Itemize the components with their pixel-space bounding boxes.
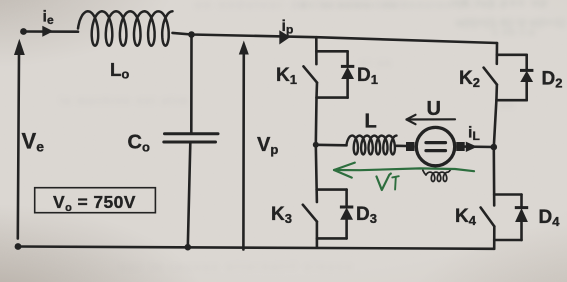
- diode D3 branch upper lead: [345, 190, 348, 207]
- node dot left leg mid (load tap): [313, 142, 319, 148]
- diode D3 cathode bar: [340, 206, 353, 209]
- wire Vp arrow shaft: [242, 47, 245, 250]
- inductor L coil: [347, 136, 397, 155]
- Vo box: [35, 188, 156, 213]
- motor M circle: [416, 127, 454, 165]
- arrowhead ip (right): [279, 30, 290, 44]
- arrowhead iL (right): [466, 142, 478, 152]
- diode D4 cathode bar: [515, 206, 528, 209]
- diode D2 cathode bar: [520, 69, 533, 72]
- wire K4 block bottom horizontal: [494, 239, 521, 242]
- diode D1 branch upper lead: [346, 51, 349, 66]
- diode D2 branch lower lead: [525, 82, 528, 101]
- diode D1 branch lower lead: [346, 79, 349, 98]
- inductor Lo coil: [78, 11, 173, 45]
- wire right leg from K4 blade to bottom rail: [493, 226, 496, 248]
- motor left terminal square: [406, 142, 415, 151]
- green label VT handwritten V: [377, 174, 391, 190]
- green label VT handwritten T: [392, 176, 399, 177]
- switch K2 blade: [484, 68, 497, 85]
- wire K1 block top horizontal: [316, 50, 347, 53]
- diode D4 branch upper lead: [520, 195, 523, 208]
- wire capacitor Co top lead: [190, 35, 193, 133]
- ghost text smudge top center-right: [300, 0, 507, 11]
- green arrow VT: [334, 163, 474, 190]
- ghost text smudge top right line1: [452, 0, 549, 9]
- arrowhead Ve (up): [14, 39, 25, 55]
- diode D3 branch lower lead: [345, 220, 348, 238]
- motor winding scribble under motor: [423, 169, 451, 181]
- diode D4 triangle: [515, 208, 528, 222]
- wire K2 block bottom horizontal: [496, 99, 526, 102]
- motor right terminal square: [456, 142, 465, 151]
- node dot right leg mid (load tap): [491, 144, 498, 151]
- capacitor Co bottom plate: [164, 141, 216, 144]
- switch K1 blade: [304, 66, 318, 82]
- wire load from left mid node to coil L: [316, 144, 347, 147]
- ghost text smudge right line3: [492, 27, 536, 38]
- arrowhead Vp (up): [239, 41, 249, 55]
- wire left leg upper (rail to K1 contact): [315, 37, 318, 64]
- wire capacitor Co bottom lead: [188, 144, 191, 248]
- wire right leg upper (rail corner to K2 contact): [495, 43, 498, 64]
- switch K4 blade: [481, 208, 495, 227]
- green arrow head: [334, 163, 355, 178]
- wire coil L to motor left terminal: [397, 145, 408, 148]
- diode D1 cathode bar: [341, 65, 354, 68]
- diode D1 triangle: [341, 67, 354, 79]
- ghost text smudge top right line2: [456, 17, 566, 29]
- svg-text:L: L: [365, 111, 377, 133]
- ghost text smudge right of D2: [500, 100, 516, 111]
- wire motor right terminal to right mid node: [463, 145, 494, 148]
- ghost text smudge mid left: [60, 96, 190, 107]
- wire left leg from K3 blade to bottom rail: [316, 222, 319, 248]
- switch K3 blade: [303, 205, 317, 222]
- wire right leg from K2 blade to mid node: [494, 85, 497, 147]
- wire left leg mid node to K3: [316, 145, 317, 202]
- motor equals bar top: [426, 141, 446, 144]
- diode D3 triangle: [340, 207, 353, 219]
- wire left branch Ve arrow shaft: [18, 52, 19, 239]
- ghost text smudge top center: [195, 0, 407, 11]
- green arrow shaft: [334, 168, 474, 171]
- diode D2 triangle: [520, 71, 533, 82]
- arrow U head: [407, 115, 416, 124]
- wire bottom rail: [18, 247, 494, 249]
- diode D2 branch upper lead: [525, 55, 528, 70]
- node dot Co bottom junction: [185, 244, 192, 251]
- svg-text:U: U: [427, 98, 441, 120]
- arrowhead ie (right): [42, 26, 53, 37]
- motor equals bar bottom: [426, 149, 446, 152]
- diode D4 branch lower lead: [520, 223, 523, 241]
- node dot Co top junction: [188, 31, 195, 38]
- wire K4 block top horizontal: [494, 193, 521, 196]
- ghost text smudge bottom: [120, 262, 355, 273]
- wire K3 block bottom horizontal: [317, 237, 347, 240]
- wire K2 block top horizontal: [497, 53, 527, 56]
- node dot input top left: [20, 28, 27, 35]
- wire top rail left segment: [24, 30, 79, 33]
- arrow U shaft: [407, 118, 456, 120]
- wire left leg from K1 blade to mid node: [316, 83, 317, 145]
- wire top rail from Lo to right leg: [173, 33, 498, 43]
- capacitor Co top plate: [165, 132, 219, 135]
- wire right leg mid node to K4 contact: [492, 147, 495, 205]
- node dot bottom left corner: [15, 243, 22, 250]
- wire K1 block bottom horizontal: [317, 96, 348, 99]
- wire K3 block top horizontal: [317, 188, 347, 191]
- ghost text smudge right mid: [360, 58, 392, 69]
